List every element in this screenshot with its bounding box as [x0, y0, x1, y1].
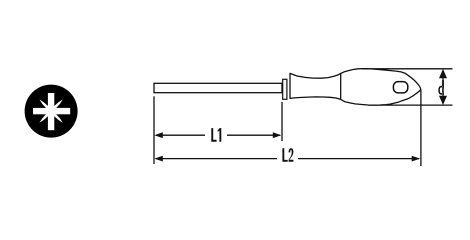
pozidriv icon star4 spike NW	[39, 99, 50, 110]
L2 left arrow	[154, 156, 163, 162]
handle	[290, 69, 421, 106]
d top arrow	[439, 69, 447, 78]
d bottom arrow	[439, 96, 447, 105]
ferrule	[283, 79, 287, 99]
L1 right arrow	[273, 132, 282, 138]
label d	[438, 80, 444, 95]
blade shaft	[154, 83, 282, 92]
extension line blade end	[281, 102, 283, 141]
extension line d bottom	[368, 104, 453, 106]
extension line handle end	[420, 90, 422, 166]
extension line d top	[362, 68, 453, 70]
pozidriv icon disc	[25, 85, 78, 138]
label L1	[211, 128, 221, 142]
pozidriv icon star4 spike NE	[52, 99, 63, 110]
L1 left arrow	[154, 132, 163, 138]
L2 right arrow	[412, 156, 421, 162]
d dimension line	[442, 77, 444, 97]
extension line blade tip	[153, 96, 155, 164]
hanging hole	[393, 82, 407, 93]
pozidriv icon star4 spike SE	[52, 112, 63, 123]
L2 dimension line	[156, 158, 277, 160]
L1 dimension line	[156, 134, 205, 136]
handle parting line	[340, 73, 342, 99]
pozidriv icon cross	[33, 108, 70, 114]
pozidriv icon star4 spike SW	[39, 112, 50, 123]
label L2	[282, 148, 293, 162]
